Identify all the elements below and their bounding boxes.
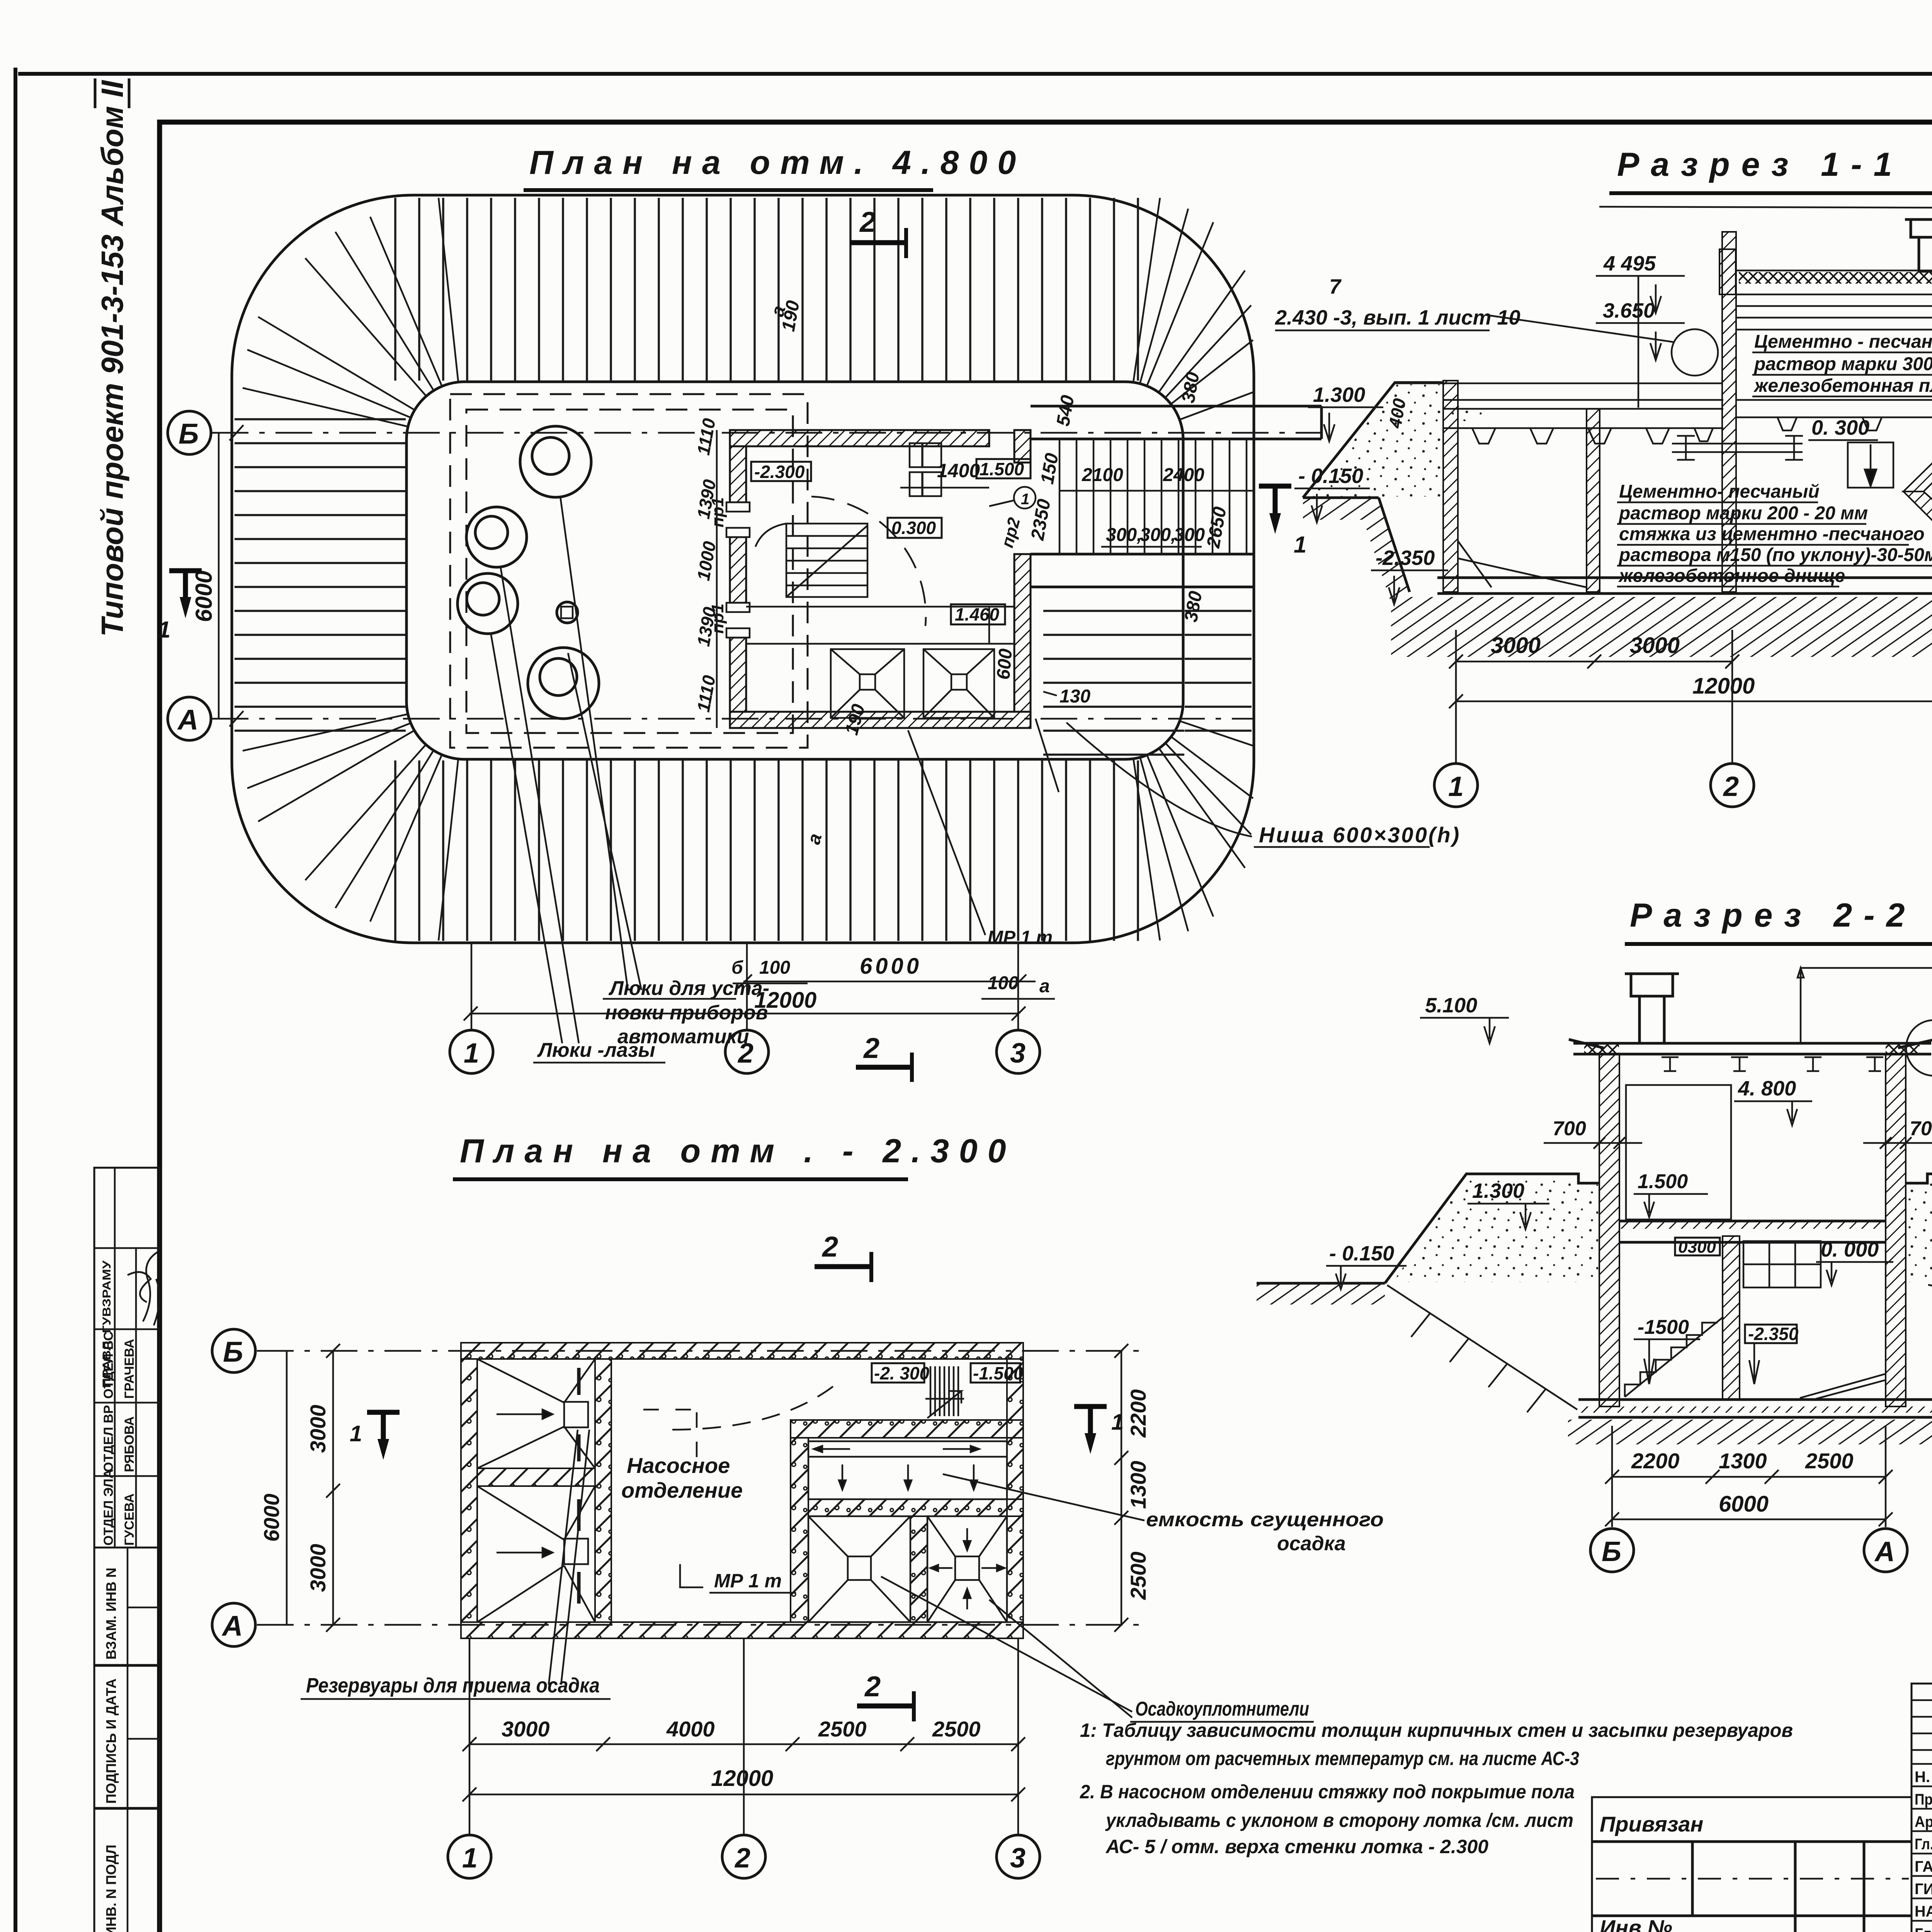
svg-text:-2.350: -2.350: [1376, 546, 1435, 570]
axis line Б: [212, 432, 1321, 434]
dim line 6000: [738, 954, 1036, 988]
svg-text:0300: 0300: [1678, 1238, 1716, 1257]
leader circle left: [1672, 329, 1718, 376]
svg-text:Гл.инжин: Гл.инжин: [1915, 1925, 1932, 1932]
left ground line: [1303, 497, 1379, 499]
bubble А lower: [212, 1603, 255, 1646]
svg-text:700: 700: [1910, 1117, 1932, 1140]
svg-text:2. В насосном отделении с: 2. В насосном отделении стяжку под покры…: [1080, 1781, 1575, 1803]
svg-text:0.300: 0.300: [891, 518, 936, 538]
svg-text:1: 1: [1021, 491, 1029, 508]
svg-text:100: 100: [759, 957, 790, 978]
left stamp table: approvals: [94, 1168, 160, 1548]
svg-text:5.100: 5.100: [1425, 994, 1477, 1017]
level 5.100: [1420, 994, 1509, 1043]
svg-text:0. 300: 0. 300: [1811, 416, 1869, 439]
mound outer edge rounded rect: [232, 195, 1254, 943]
niche label with leader: [1066, 723, 1461, 847]
stair corridor bands: [1031, 406, 1321, 587]
bottom band vertical hatch: [390, 760, 1148, 941]
section mark 1 right: [1259, 486, 1306, 558]
right band horizontal hatch: [1185, 603, 1252, 736]
svg-text:Разрез 1-1: Разрез 1-1: [1617, 146, 1904, 183]
upper room floor slab: [1736, 400, 1932, 430]
svg-text:Осадкоуплотнители: Осадкоуплотнители: [1135, 1698, 1309, 1720]
svg-text:Архитект.: Архитект.: [1915, 1813, 1932, 1830]
svg-text:2: 2: [864, 1670, 881, 1702]
dim 1400 with leader: [900, 460, 989, 488]
svg-text:МР 1 т: МР 1 т: [988, 927, 1053, 948]
svg-text:-1.500: -1.500: [973, 1363, 1024, 1383]
0.000 level: [1816, 1238, 1893, 1285]
dim 700 right: [1863, 1117, 1932, 1149]
svg-text:1: 1: [1448, 771, 1464, 802]
svg-text:7: 7: [1329, 275, 1342, 298]
svg-text:ВЗАМ. ИНВ N: ВЗАМ. ИНВ N: [103, 1568, 119, 1660]
central tall wall: [1722, 232, 1736, 592]
svg-text:Люки -лазы: Люки -лазы: [537, 1039, 655, 1061]
level boxes: [751, 462, 811, 482]
top band vertical hatch: [390, 198, 1148, 381]
manhole circle 2: [466, 507, 527, 567]
-1500 lower: [1634, 1316, 1700, 1384]
sheet outer border top line: [18, 72, 1932, 76]
building walls with hatch: [730, 430, 1031, 728]
right embankment: [1906, 1174, 1932, 1283]
roof slab: [1569, 1039, 1932, 1054]
svg-text:- 0.150: - 0.150: [1329, 1242, 1394, 1265]
svg-text:6000: 6000: [1719, 1492, 1769, 1517]
svg-text:6000: 6000: [259, 1493, 284, 1542]
svg-text:2500: 2500: [1126, 1551, 1150, 1600]
channel band: [746, 607, 1014, 644]
svg-text:2: 2: [737, 1038, 753, 1069]
-1.500 box: [971, 1363, 1024, 1383]
reservoir funnel bottom: [477, 1486, 595, 1622]
svg-text:емкость сгущенного: емкость сгущенного: [1146, 1509, 1384, 1531]
svg-text:-2.350: -2.350: [1748, 1324, 1799, 1344]
dims 2200 1300 2500: [1605, 1449, 1893, 1484]
svg-text:Б: Б: [179, 418, 199, 450]
thickener funnel left: [808, 1516, 910, 1622]
pit left slope: [1379, 498, 1410, 592]
svg-text:1300: 1300: [1126, 1461, 1150, 1509]
text: cement mortar 200-20 block: [1618, 481, 1932, 586]
inclined chute band 1: [1903, 410, 1932, 492]
svg-text:2500: 2500: [1805, 1449, 1854, 1473]
ribbed beam stubs: [1472, 428, 1713, 444]
svg-text:1: Таблицу зависимости толщи: 1: Таблицу зависимости толщин кирпичных …: [1080, 1719, 1793, 1741]
svg-text:Н. контр.: Н. контр.: [1915, 1769, 1932, 1786]
svg-text:1: 1: [158, 617, 170, 643]
left parapet above central wall: [1719, 249, 1736, 294]
bubbles 1 2 3 lower: [448, 1835, 491, 1878]
svg-text:Люки для уста-: Люки для уста-: [608, 977, 769, 1000]
leader line up from roof: [1801, 968, 1932, 1043]
svg-text:План на отм . - 2.300: План на отм . - 2.300: [460, 1133, 1016, 1170]
pit slopes: [1387, 1285, 1577, 1410]
roof slabs: [1736, 270, 1932, 330]
right dims lower plan: [1114, 1344, 1150, 1632]
svg-text:стяжка из цементно -песчаного: стяжка из цементно -песчаного: [1619, 524, 1925, 544]
left embankment: [1385, 1174, 1599, 1283]
sloped floor bottom right: [1800, 1374, 1885, 1399]
svg-text:4 495: 4 495: [1603, 252, 1656, 275]
corner fan bottom-left: [243, 714, 458, 940]
svg-text:А: А: [221, 1610, 243, 1642]
left vertical dim 6000: [191, 433, 219, 719]
svg-text:6000: 6000: [191, 571, 217, 622]
wall opening jamb marks ПР1: [726, 502, 750, 638]
section 1 marks lower plan: [350, 1412, 400, 1460]
level 1.300 left: [1468, 1179, 1549, 1229]
svg-text:1: 1: [462, 1843, 478, 1874]
column stubs to bubbles: [471, 943, 473, 1030]
label 7 / 2.430-3 vyp 1: [1275, 275, 1520, 329]
top reference line 5400: [1599, 207, 1932, 210]
left band horizontal hatch: [235, 410, 406, 736]
section title: Разрез 2-2: [1625, 897, 1932, 944]
section mark 2 bottom: [856, 1032, 912, 1082]
section mark 2 upper: [815, 1231, 871, 1282]
roof I-beams: [1662, 1057, 1883, 1071]
dim 700 left: [1544, 1117, 1642, 1149]
svg-text:Гл. констр: Гл. констр: [1915, 1836, 1932, 1853]
svg-text:3.650: 3.650: [1603, 299, 1655, 322]
svg-text:3000: 3000: [502, 1717, 550, 1741]
pit bottom hatch: [1568, 1420, 1932, 1444]
-2.350 box: [1745, 1324, 1799, 1384]
left thin rows: [1912, 1699, 1932, 1701]
svg-text:2500: 2500: [818, 1717, 867, 1741]
chimney: [1625, 974, 1679, 1043]
bubble Б lower: [212, 1329, 255, 1372]
svg-text:Б: Б: [223, 1336, 243, 1368]
grid bubble А: [168, 697, 243, 740]
svg-text:ГИП: ГИП: [1915, 1881, 1932, 1898]
svg-text:1300: 1300: [1719, 1449, 1767, 1473]
column stubs: [1455, 630, 1457, 763]
grid bubble Б: [168, 411, 243, 454]
signatures squiggles: [143, 1252, 158, 1321]
funnel square left: [831, 649, 904, 718]
svg-text:2: 2: [734, 1843, 750, 1874]
window grid: [1743, 1241, 1821, 1287]
svg-text:1.500: 1.500: [1638, 1170, 1688, 1193]
reservoir funnel top: [477, 1359, 595, 1468]
ground lines: [1257, 1282, 1385, 1285]
svg-text:4. 800: 4. 800: [1738, 1077, 1796, 1100]
dashed swing arc: [811, 497, 926, 626]
inner area horizontal lines right of building: [1043, 603, 1184, 757]
svg-text:12000: 12000: [711, 1766, 773, 1791]
tower right wall: [1886, 1054, 1906, 1406]
hanging walkway: [1672, 436, 1803, 460]
svg-text:2200: 2200: [1126, 1389, 1150, 1438]
svg-text:РЯБОВА: РЯБОВА: [122, 1416, 137, 1472]
svg-text:3: 3: [1010, 1038, 1026, 1069]
-2.300 box: [872, 1363, 930, 1383]
svg-text:300,: 300,: [1106, 525, 1142, 545]
plan title: План на отм. 4.800: [524, 144, 1026, 190]
svg-text:раствора м150 (по уклону)-30-5: раствора м150 (по уклону)-30-50мм: [1618, 545, 1932, 565]
vertical sheet title: Типовой проект 901-3-153 Альбом II: [95, 78, 129, 637]
column stubs lower: [469, 1638, 471, 1835]
bottom slab: [1578, 1400, 1932, 1417]
pit bottom hatch band: [1391, 597, 1932, 657]
svg-text:-1500: -1500: [1638, 1316, 1689, 1338]
svg-text:2: 2: [1723, 771, 1739, 802]
reservoir dashed outline outer: [450, 394, 808, 748]
0300 box: [1675, 1238, 1720, 1257]
section mark 2 top: [850, 206, 906, 258]
left embankment dotted fill: [1312, 384, 1484, 497]
svg-text:Ниша 600×300(h): Ниша 600×300(h): [1259, 823, 1461, 847]
dashed guide corner: [643, 1410, 697, 1463]
dim row 12000 lower: [463, 1766, 1025, 1801]
svg-text:ГУСЕВА: ГУСЕВА: [122, 1493, 137, 1546]
text: cement mortar 300-30: [1753, 332, 1932, 396]
bottom small dims: [731, 303, 1053, 997]
vertical dims left of building inner: [693, 417, 720, 713]
svg-text:Типовой проект 901-3-153 А: Типовой проект 901-3-153 Альбом II: [95, 80, 129, 637]
-0.150 left: [1326, 1242, 1406, 1289]
bubble 1: [450, 1030, 493, 1073]
svg-text:ОТДЕЛ ВС: ОТДЕЛ ВС: [101, 1332, 116, 1399]
svg-text:300,: 300,: [1140, 525, 1176, 545]
insulation cross hatch band: [1739, 272, 1932, 284]
svg-text:МР 1 т: МР 1 т: [714, 1570, 782, 1592]
svg-text:б: б: [731, 957, 743, 978]
lower partition wall: [1723, 1236, 1740, 1400]
svg-text:12000: 12000: [1692, 673, 1755, 699]
svg-text:Разрез 2-2: Разрез 2-2: [1630, 897, 1917, 934]
level texts right: [1811, 213, 1932, 543]
lower plan title: [453, 1133, 1016, 1179]
plan walls: [461, 1343, 1023, 1638]
svg-text:железобетонная плита: железобетонная плита: [1753, 376, 1932, 396]
svg-text:1: 1: [350, 1421, 362, 1446]
manhole circle 1: [520, 426, 591, 497]
thickener band cell: [808, 1441, 1007, 1499]
corner fan top-right: [1133, 198, 1253, 420]
dim row 3000 3000: [1449, 633, 1739, 668]
svg-text:600: 600: [993, 648, 1016, 680]
svg-text:ИНВ. N ПОДЛ: ИНВ. N ПОДЛ: [103, 1845, 119, 1932]
dim 6000: [1605, 1492, 1893, 1526]
level 1.500 upper room: [1634, 1170, 1708, 1217]
svg-text:грунтом от расчетных темпер: грунтом от расчетных температур см. на л…: [1106, 1748, 1579, 1769]
bubble 1: [1434, 764, 1478, 807]
svg-text:2100: 2100: [1082, 465, 1123, 485]
dim line 12000: [464, 988, 1026, 1020]
MP 1t mark: [680, 1564, 796, 1593]
left tank wall: [1443, 381, 1458, 592]
svg-text:Б: Б: [1602, 1536, 1621, 1567]
svg-text:0. 000: 0. 000: [1821, 1238, 1879, 1261]
svg-text:1.460: 1.460: [955, 604, 1000, 624]
left stamp table: inv/signature column: [94, 1548, 160, 1932]
svg-text:осадка: осадка: [1277, 1532, 1346, 1555]
eaves leader circle: [1906, 1020, 1932, 1076]
svg-text:а: а: [1039, 976, 1050, 997]
svg-text:Привязан: Привязан: [1600, 1812, 1703, 1836]
svg-text:укладывать с уклоном в сто: укладывать с уклоном в сторону лотка /см…: [1105, 1810, 1573, 1831]
svg-text:-2. 300: -2. 300: [874, 1363, 930, 1383]
svg-text:ГРАЧЕВА: ГРАЧЕВА: [122, 1339, 137, 1399]
hatches labels: [537, 977, 769, 1061]
reservoir dashed outline inner: [466, 410, 793, 733]
column stubs: [1611, 1426, 1613, 1527]
hopper box 0.300: [1848, 442, 1893, 488]
svg-text:А: А: [177, 704, 198, 736]
upper plan dims right of building: [778, 299, 1231, 737]
left dims lower plan: [259, 1344, 340, 1632]
section title: Разрез 1-1: [1609, 146, 1932, 193]
svg-text:железобетонное днище: железобетонное днище: [1618, 566, 1845, 586]
tank1 sloped bottom: [1458, 541, 1587, 587]
chimney: [1905, 219, 1932, 271]
bubble 3: [997, 1030, 1040, 1073]
svg-text:3000: 3000: [306, 1405, 330, 1453]
svg-text:1: 1: [1294, 532, 1306, 558]
svg-text:Проверил: Проверил: [1915, 1791, 1932, 1808]
svg-text:ОТДЕЛ ЭЛА: ОТДЕЛ ЭЛА: [101, 1469, 116, 1546]
svg-text:3000: 3000: [306, 1544, 330, 1592]
manhole circle 3: [457, 573, 518, 634]
corner fan top-left: [243, 198, 458, 427]
svg-text:2.430 -3, вып. 1 лист 10: 2.430 -3, вып. 1 лист 10: [1275, 306, 1520, 329]
svg-text:2: 2: [859, 206, 876, 238]
svg-text:ОТДЕЛ ВР: ОТДЕЛ ВР: [101, 1405, 116, 1472]
mound top plateau inner rounded rect: [406, 382, 1183, 759]
svg-text:1.300: 1.300: [1313, 383, 1365, 406]
tank top slab: [1395, 383, 1723, 428]
svg-text:- 0.150: - 0.150: [1298, 464, 1363, 488]
svg-text:3000: 3000: [1491, 633, 1541, 658]
bubble 2: [725, 1030, 769, 1073]
manhole circle 4: [528, 648, 599, 719]
bubble Б: [1590, 1529, 1634, 1572]
svg-text:3000: 3000: [1630, 633, 1680, 658]
svg-text:2500: 2500: [932, 1717, 981, 1741]
svg-text:6000: 6000: [860, 954, 922, 979]
svg-text:-2.300: -2.300: [754, 462, 805, 482]
svg-text:НАЧ ОТД: НАЧ ОТД: [1915, 1903, 1932, 1920]
svg-text:300: 300: [1174, 525, 1205, 545]
level 4.800: [1734, 1077, 1812, 1125]
svg-text:Цементно- песчаный: Цементно- песчаный: [1619, 481, 1820, 502]
interior stair flight: [755, 524, 867, 597]
svg-text:2: 2: [863, 1032, 879, 1064]
stairs top right: [925, 1366, 964, 1418]
dim row 12000: [1449, 673, 1932, 708]
svg-text:4000: 4000: [666, 1717, 715, 1741]
svg-text:АС- 5 / отм. верха стенки: АС- 5 / отм. верха стенки лотка - 2.300: [1105, 1836, 1488, 1857]
left ground hatch: [1303, 498, 1379, 520]
mid floor slab: [1619, 1221, 1886, 1242]
leader lines to labels: [560, 497, 628, 990]
thickener funnel right: [927, 1516, 1007, 1622]
svg-text:Инв №: Инв №: [1600, 1915, 1672, 1932]
tower left wall: [1599, 1054, 1619, 1406]
svg-text:1400: 1400: [937, 460, 980, 481]
svg-text:1.500: 1.500: [980, 459, 1024, 479]
svg-text:2400: 2400: [1163, 465, 1204, 485]
dashed arc: [672, 1385, 835, 1430]
svg-text:ГАП: ГАП: [1915, 1858, 1932, 1875]
corridor steps: [1060, 439, 1247, 554]
ladder grate symbol: [910, 443, 941, 496]
pump room label: [621, 1453, 743, 1502]
designation rows: [1912, 1763, 1932, 1765]
floor slab: [1437, 578, 1932, 594]
svg-text:раствор марки 200 - 20 мм: раствор марки 200 - 20 мм: [1618, 503, 1868, 524]
inclined chute band 2: [1903, 492, 1932, 567]
funnel square right: [923, 649, 994, 718]
svg-text:2200: 2200: [1631, 1449, 1680, 1473]
svg-text:раствор марки 300-30: раствор марки 300-30: [1753, 354, 1932, 374]
svg-text:100: 100: [988, 973, 1019, 993]
bubble А: [1864, 1529, 1907, 1572]
svg-text:1: 1: [464, 1038, 479, 1069]
labels with leaders: [301, 1430, 611, 1699]
svg-text:А: А: [1874, 1536, 1895, 1567]
svg-text:ПОДПИСЬ И ДАТА: ПОДПИСЬ И ДАТА: [103, 1679, 119, 1804]
section mark 1 left: [158, 571, 202, 643]
dim row 3000 4000 2500 2500: [463, 1717, 1025, 1751]
small hatch circle: [557, 602, 578, 623]
level texts left: [1298, 252, 1656, 570]
sheet outer border left line: [14, 68, 17, 1932]
svg-text:3: 3: [1010, 1843, 1026, 1874]
svg-text:Цементно - песчаный: Цементно - песчаный: [1754, 332, 1932, 352]
lower plan axes: [257, 1350, 1140, 1352]
svg-text:новки приборов: новки приборов: [605, 1002, 768, 1024]
node bubble 1 with pr2: [989, 487, 1036, 550]
upper room door frame: [1626, 1085, 1731, 1219]
svg-text:700: 700: [1553, 1117, 1586, 1140]
svg-text:отделение: отделение: [621, 1478, 743, 1502]
axis line А: [212, 718, 1254, 720]
corner fan bottom-right: [1133, 721, 1253, 940]
svg-text:Насосное: Насосное: [627, 1453, 730, 1478]
svg-text:Резервуары для приема осадка: Резервуары для приема осадка: [306, 1674, 600, 1697]
svg-text:План на отм. 4.800: План на отм. 4.800: [529, 144, 1026, 181]
svg-text:1: 1: [1111, 1410, 1124, 1435]
svg-text:2: 2: [821, 1231, 838, 1263]
section mark 2 lower: [857, 1670, 914, 1721]
tank partition wall: [1587, 409, 1600, 592]
bubble 2: [1711, 764, 1754, 807]
svg-text:130: 130: [1060, 686, 1090, 707]
left embankment outline: [1303, 383, 1443, 498]
lower interior: stairs: [1625, 1317, 1723, 1397]
